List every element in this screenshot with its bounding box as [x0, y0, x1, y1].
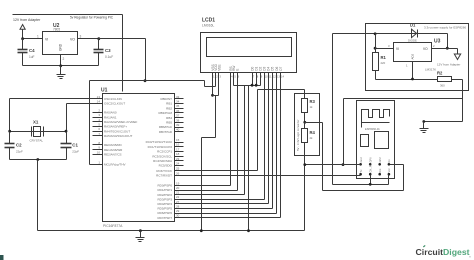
3.3V power supply box [366, 24, 469, 91]
pin 5 RA3/AN3/VREF+ [93, 126, 103, 128]
svg-text:RC6/TX/CK: RC6/TX/CK [156, 169, 172, 173]
svg-text:D7: D7 [279, 66, 283, 70]
svg-text:22pF: 22pF [72, 150, 79, 154]
wire 5V to MCLR [90, 80, 146, 82]
resistor R1 [375, 34, 377, 53]
node 12V input arrow [20, 25, 25, 30]
pin 33 RB0/INT [175, 98, 184, 100]
svg-text:OSC1/CLKIN: OSC1/CLKIN [104, 97, 122, 101]
module ESP8266-01 [357, 101, 395, 179]
svg-text:RD6/PSP6: RD6/PSP6 [157, 211, 172, 215]
chip large [375, 132, 389, 149]
wire RD7 to LCD D7 [184, 217, 281, 219]
svg-text:19: 19 [176, 181, 180, 185]
pin 16 RC1/T1OSI/CCP2 [175, 146, 184, 148]
svg-text:C3: C3 [105, 48, 111, 53]
pin 2 RA0/AN0 [93, 112, 103, 114]
pin 29 RD6/PSP6 [175, 213, 184, 215]
svg-text:1uF: 1uF [29, 55, 35, 59]
wire LCD VEE to gnd [218, 79, 220, 96]
pin 18 RC3/SCK/SCL [175, 156, 184, 158]
wire R1 bottom to ADJ to R2 [375, 71, 377, 80]
pin 19 RD0/PSP0 [175, 185, 184, 187]
svg-text:13: 13 [97, 95, 101, 99]
svg-text:RD5/PSP5: RD5/PSP5 [157, 207, 172, 211]
resistor R4 [304, 123, 306, 129]
svg-text:RD7/PSP7: RD7/PSP7 [157, 216, 172, 220]
antenna trace [362, 110, 390, 128]
svg-text:MCLR/Vpp/THV: MCLR/Vpp/THV [104, 163, 126, 167]
wire 3.3V output down [332, 34, 334, 185]
wire LCD ground run [215, 96, 217, 138]
svg-text:20: 20 [176, 186, 180, 190]
svg-text:RB3/PGM: RB3/PGM [158, 111, 172, 115]
svg-text:5v Regulator for Powering PIC: 5v Regulator for Powering PIC [70, 16, 114, 20]
svg-text:RD3/PSP3: RD3/PSP3 [157, 197, 172, 201]
svg-text:RA1/AN1: RA1/AN1 [104, 115, 117, 119]
svg-text:R3: R3 [310, 99, 316, 104]
svg-text:GP0: GP0 [369, 157, 373, 163]
svg-text:GND: GND [59, 43, 63, 51]
node 5V branch junction [144, 79, 147, 82]
svg-text:15: 15 [176, 138, 180, 142]
svg-text:RE0/AN5/RD: RE0/AN5/RD [104, 143, 123, 147]
wire 5V to corner [99, 38, 146, 40]
pin 10 RE2/AN7/CS [93, 154, 103, 156]
svg-text:40: 40 [176, 128, 180, 132]
wire 12V to U2 VI [23, 38, 43, 40]
wire gnd link to ESP ground [344, 98, 463, 100]
pin 13 OSC1/CLKIN [93, 98, 103, 100]
pin 7 RA5/AN4/SS/C2OUT [93, 135, 103, 137]
svg-text:33: 33 [176, 95, 180, 99]
capacitor C2 [9, 132, 11, 144]
pin 25 RC6/TX/CK [175, 170, 184, 172]
svg-text:RD4/PSP4: RD4/PSP4 [157, 202, 172, 206]
pin 30 RD7/PSP7 [175, 217, 184, 219]
wire: annotation divider for 5V regulator section [13, 14, 123, 16]
pin 36 RB3/PGM [175, 112, 184, 114]
pin 27 RD4/PSP4 [175, 203, 184, 205]
svg-text:VI: VI [45, 38, 48, 42]
svg-text:RC4/SDI/SDA: RC4/SDI/SDA [153, 159, 172, 163]
svg-text:23: 23 [176, 157, 180, 161]
pin 21 RD2/PSP2 [175, 194, 184, 196]
svg-text:RA4/T0CKI/C1OUT: RA4/T0CKI/C1OUT [104, 129, 130, 133]
svg-text:RA2/AN2/VREF-/CVREF: RA2/AN2/VREF-/CVREF [104, 120, 138, 124]
svg-text:RC5/SDO: RC5/SDO [159, 164, 173, 168]
svg-text:5V - 3.3V Logic converter: 5V - 3.3V Logic converter [296, 119, 300, 151]
wire ESP ground [305, 164, 361, 166]
wire 5V to LCD VDD [146, 80, 205, 82]
pin 22 RD3/PSP3 [175, 199, 184, 201]
svg-text:Gnd: Gnd [359, 157, 363, 162]
svg-text:39: 39 [176, 123, 180, 127]
svg-text:RB7/PGD: RB7/PGD [159, 130, 173, 134]
svg-text:VO: VO [70, 38, 75, 42]
svg-text:24: 24 [176, 162, 180, 166]
svg-text:RC0/T1OSO/T1CKI: RC0/T1OSO/T1CKI [146, 140, 173, 144]
wire OSC1 [10, 98, 93, 100]
pin 15 RC0/T1OSO/T1CKI [175, 142, 184, 144]
pin 9 RE1/AN6/WR [93, 149, 103, 151]
svg-text:C2: C2 [16, 143, 22, 148]
svg-text:RE2/AN7/CS: RE2/AN7/CS [104, 153, 122, 157]
wire RC7 RX from ESP TX [184, 175, 361, 177]
pin 4 RA2/AN2/VREF-/CVREF [93, 121, 103, 123]
svg-text:RD1/PSP1: RD1/PSP1 [157, 188, 172, 192]
svg-text:ESP8266-01: ESP8266-01 [365, 127, 380, 131]
wire bottom ground rail [38, 230, 305, 232]
ground (3.3V box) [423, 122, 425, 129]
wire RD2 riser [184, 194, 245, 196]
wire divider mid to ESP RX loop [305, 122, 323, 124]
svg-text:RB2: RB2 [166, 106, 172, 110]
svg-text:28: 28 [176, 204, 180, 208]
wire RC6 TX to R3 [184, 170, 258, 172]
capacitor C3 [98, 39, 100, 50]
wire RD4 to LCD D4 [184, 203, 269, 205]
svg-text:CircuitDigest: CircuitDigest [416, 247, 470, 257]
svg-text:18: 18 [176, 152, 180, 156]
pin 17 RC2/CCP1 [175, 151, 184, 153]
svg-text:CRYSTAL: CRYSTAL [30, 139, 44, 143]
pin 1 MCLR/Vpp/THV [93, 164, 103, 166]
svg-text:CH_PD: CH_PD [369, 164, 373, 173]
svg-text:RB0/INT: RB0/INT [160, 97, 172, 101]
wire VI to R1 top [376, 48, 394, 50]
wire ADJ leg [412, 62, 414, 80]
svg-text:R2: R2 [437, 71, 443, 76]
svg-text:RA3/AN3/VREF+: RA3/AN3/VREF+ [104, 125, 127, 129]
svg-text:3.3v power supply for ESP8266: 3.3v power supply for ESP8266 [424, 26, 466, 30]
svg-text:21: 21 [176, 191, 180, 195]
wire VO to 12V arrow [432, 48, 458, 50]
pin 23 RC4/SDI/SDA [175, 160, 184, 162]
svg-text:U1: U1 [101, 88, 108, 94]
svg-text:R1: R1 [381, 55, 387, 60]
svg-text:220: 220 [381, 61, 386, 65]
svg-text:RE1/AN6/WR: RE1/AN6/WR [104, 148, 123, 152]
svg-text:3: 3 [80, 35, 82, 39]
svg-text:RD2/PSP2: RD2/PSP2 [157, 193, 172, 197]
pin 40 RB7/PGD [175, 131, 184, 133]
svg-text:RB5: RB5 [166, 121, 172, 125]
svg-text:X1: X1 [33, 120, 39, 125]
svg-text:30: 30 [176, 214, 180, 218]
wire to LM317 VO side [447, 34, 449, 49]
svg-text:26: 26 [176, 171, 180, 175]
wire LCD RW,D0,D1,D2 ground tie [233, 79, 235, 86]
svg-text:RC3/SCK/SCL: RC3/SCK/SCL [152, 154, 172, 158]
pin 28 RD5/PSP5 [175, 208, 184, 210]
svg-text:C4: C4 [29, 48, 35, 53]
svg-text:LM016L: LM016L [202, 24, 214, 28]
svg-text:Rst: Rst [378, 168, 382, 172]
node 12V from adapter arrow (3.3V box) [457, 49, 459, 54]
svg-text:360: 360 [440, 84, 445, 88]
svg-text:12V from Adapter: 12V from Adapter [13, 18, 41, 22]
svg-text:25: 25 [176, 167, 180, 171]
svg-text:16: 16 [176, 143, 180, 147]
svg-text:0.1uF: 0.1uF [105, 55, 113, 59]
svg-text:1: 1 [37, 35, 39, 39]
pin 35 RB2 [175, 108, 184, 110]
svg-text:RC7/RX/DT: RC7/RX/DT [156, 174, 172, 178]
svg-text:OSC2/CLKOUT: OSC2/CLKOUT [104, 102, 125, 106]
svg-text:RA5/AN4/SS/C2OUT: RA5/AN4/SS/C2OUT [104, 134, 133, 138]
svg-text:29: 29 [176, 209, 180, 213]
svg-text:22pF: 22pF [16, 150, 23, 154]
pin 24 RC5/SDO [175, 165, 184, 167]
svg-text:PIC16F877A: PIC16F877A [103, 224, 123, 228]
svg-text:m: m [469, 256, 471, 259]
ground (regulator) [60, 66, 62, 75]
svg-text:GP2: GP2 [378, 157, 382, 163]
svg-text:27: 27 [176, 200, 180, 204]
svg-text:10: 10 [97, 150, 101, 154]
wire U2 GND leg [60, 55, 62, 66]
wire RD6 to LCD D6 [184, 213, 277, 215]
svg-text:VO: VO [423, 47, 428, 51]
svg-text:37: 37 [176, 114, 180, 118]
wire OSC2 [67, 103, 93, 105]
wire 12V line in 3.3V box [333, 33, 448, 35]
wire R2 to ground [452, 79, 463, 81]
svg-text:14: 14 [97, 100, 101, 104]
chip small [361, 135, 369, 147]
wire RD3 riser [184, 199, 265, 201]
svg-text:38: 38 [176, 118, 180, 122]
svg-text:LM317K: LM317K [425, 68, 436, 72]
ground (main) [139, 229, 142, 232]
svg-text:36: 36 [176, 109, 180, 113]
wire LCD VSS to gnd [212, 79, 214, 96]
svg-text:RC2/CCP1: RC2/CCP1 [157, 150, 172, 154]
svg-text:RB4: RB4 [166, 116, 172, 120]
pin 20 RD1/PSP1 [175, 190, 184, 192]
wire R4 to ground rail [304, 143, 306, 231]
wire regulator ground rail [23, 65, 99, 67]
svg-text:R4: R4 [310, 130, 316, 135]
svg-text:E: E [236, 69, 240, 71]
pin 8 RE0/AN5/RD [93, 144, 103, 146]
svg-text:ADJ: ADJ [411, 53, 415, 59]
wire RD0 to LCD RS [184, 185, 231, 187]
svg-text:U3: U3 [434, 39, 441, 45]
svg-text:35: 35 [176, 104, 180, 108]
wire U2 VO output [78, 38, 99, 40]
svg-text:VI: VI [396, 47, 399, 51]
svg-text:22: 22 [176, 195, 180, 199]
svg-text:17: 17 [176, 147, 180, 151]
svg-text:34: 34 [176, 100, 180, 104]
svg-text:RA0/AN0: RA0/AN0 [104, 111, 117, 115]
svg-text:RB1: RB1 [166, 102, 172, 106]
pin 14 OSC2/CLKOUT [93, 103, 103, 105]
pin 37 RB4 [175, 117, 184, 119]
svg-text:RD0/PSP0: RD0/PSP0 [157, 184, 172, 188]
wire RD5 to LCD D5 [184, 208, 273, 210]
svg-text:12V from Adapter: 12V from Adapter [437, 63, 460, 67]
logic converter box [295, 94, 320, 156]
svg-text:2: 2 [63, 57, 65, 61]
pin 39 RB6/PGC [175, 127, 184, 129]
svg-text:VEE: VEE [217, 64, 221, 70]
capacitor C4 [22, 39, 24, 50]
pin 34 RB1 [175, 103, 184, 105]
svg-text:C1: C1 [72, 143, 78, 148]
pin 6 RA4/T0CKI/C1OUT [93, 131, 103, 133]
wire crystal ground [10, 159, 67, 161]
svg-text:DIODE: DIODE [408, 39, 417, 43]
pin 38 RB5 [175, 122, 184, 124]
resistor R3 [304, 90, 306, 99]
capacitor C1 [66, 132, 68, 144]
pin 3 RA1/AN1 [93, 117, 103, 119]
svg-text:RC1/T1OSI/CCP2: RC1/T1OSI/CCP2 [148, 145, 173, 149]
pin 26 RC7/RX/DT [175, 175, 184, 177]
wire ESP 3.3V supply [333, 184, 389, 186]
svg-text:Vcc: Vcc [387, 167, 391, 172]
wire tie to ground rail [248, 86, 250, 231]
svg-text:D1: D1 [410, 23, 416, 28]
svg-text:RB6/PGC: RB6/PGC [159, 125, 173, 129]
wire RD1 to LCD E [184, 190, 238, 192]
